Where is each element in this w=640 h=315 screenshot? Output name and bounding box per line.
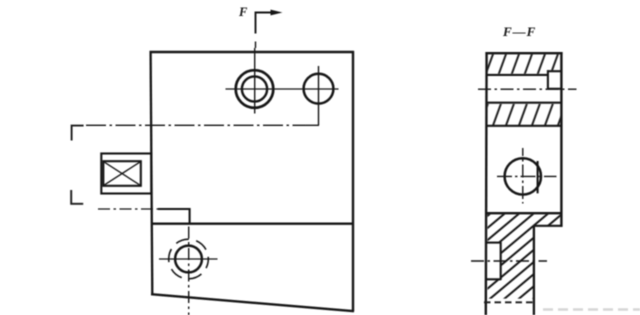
hatch fill: top band (488, 54, 561, 74)
clamp block: inner crossed rectangle (103, 161, 141, 186)
step edge at right (534, 225, 563, 227)
clamp block: diagonal 2 (104, 162, 141, 186)
main body outline: left edge (151, 51, 153, 295)
cutting-plane line F: upper segment (255, 42, 257, 49)
connecting corner from small-hole centerline to axis line (305, 124, 319, 126)
vertical centerline of small hole (318, 66, 320, 125)
viewing-direction arrowhead (271, 10, 283, 16)
clamp block: outer rectangle (101, 154, 151, 194)
vertical centerline of large hole (254, 48, 256, 114)
faint watermark remnant strip (bottom right) (543, 308, 640, 310)
lower hole: vertical dash-dot centerline (188, 227, 190, 315)
main body outline: slanted bottom edge (151, 294, 354, 311)
left notch: top edge (486, 242, 501, 244)
bottom edge of second hatch band (486, 125, 562, 127)
hole circle in section (505, 158, 541, 194)
upper corner bracket mark (72, 126, 84, 141)
hole horizontal centerline (497, 175, 557, 177)
large counterbored hole: inner circle (242, 76, 267, 101)
section outline: right edge (upper) (560, 52, 562, 227)
hidden edge (dashed) at bottom of hatch (484, 301, 536, 303)
section outline: right edge (lower, stepped in) (533, 226, 535, 315)
step notch: top edge (158, 208, 191, 210)
top slot right step box: top edge (547, 70, 562, 72)
hatch fill: second band (488, 104, 561, 125)
left notch: right edge (500, 242, 502, 280)
lower axis dash-dot centerline of section (471, 260, 547, 262)
top slot right step box: left edge (547, 70, 549, 89)
vertical chord edge seen through hole (537, 161, 539, 193)
large counterbored hole: outer circle (236, 70, 274, 108)
top slot right step box: bottom edge (547, 88, 562, 90)
svg-text:F—F: F—F (502, 24, 536, 39)
horizontal dividing edge of body (151, 223, 354, 225)
section outline: top edge (485, 52, 562, 54)
svg-text:F: F (238, 5, 248, 19)
hole vertical centerline (522, 148, 524, 204)
horizontal centerline through both upper holes (226, 88, 339, 90)
viewing-direction arrow (corner line) (256, 13, 273, 34)
left notch: bottom edge (486, 278, 501, 280)
step notch: vertical edge (189, 208, 191, 225)
lower hole: horizontal centerline (159, 258, 218, 260)
top slot: upper edge of slot (bottom of first hatch band) (486, 74, 548, 76)
long dash-dot axis line (upper) (86, 124, 305, 126)
lower corner bracket mark (71, 190, 83, 204)
slot lower edge (486, 102, 562, 104)
hatch fill: lower block with notch (488, 214, 561, 298)
clamp block: diagonal 1 (104, 162, 141, 186)
dash-dot axis stub (left of step notch) (98, 208, 159, 210)
section outline: left edge (485, 52, 488, 315)
bottom edge of middle band (486, 212, 562, 214)
lower hole: solid circle (175, 246, 202, 273)
main body outline: right edge (352, 51, 354, 312)
main body outline: top edge (150, 51, 355, 53)
lower hole: dashed thread circle (169, 239, 209, 279)
small hole (right) (304, 74, 334, 104)
upper axis dash-dot centerline of section (478, 88, 577, 90)
